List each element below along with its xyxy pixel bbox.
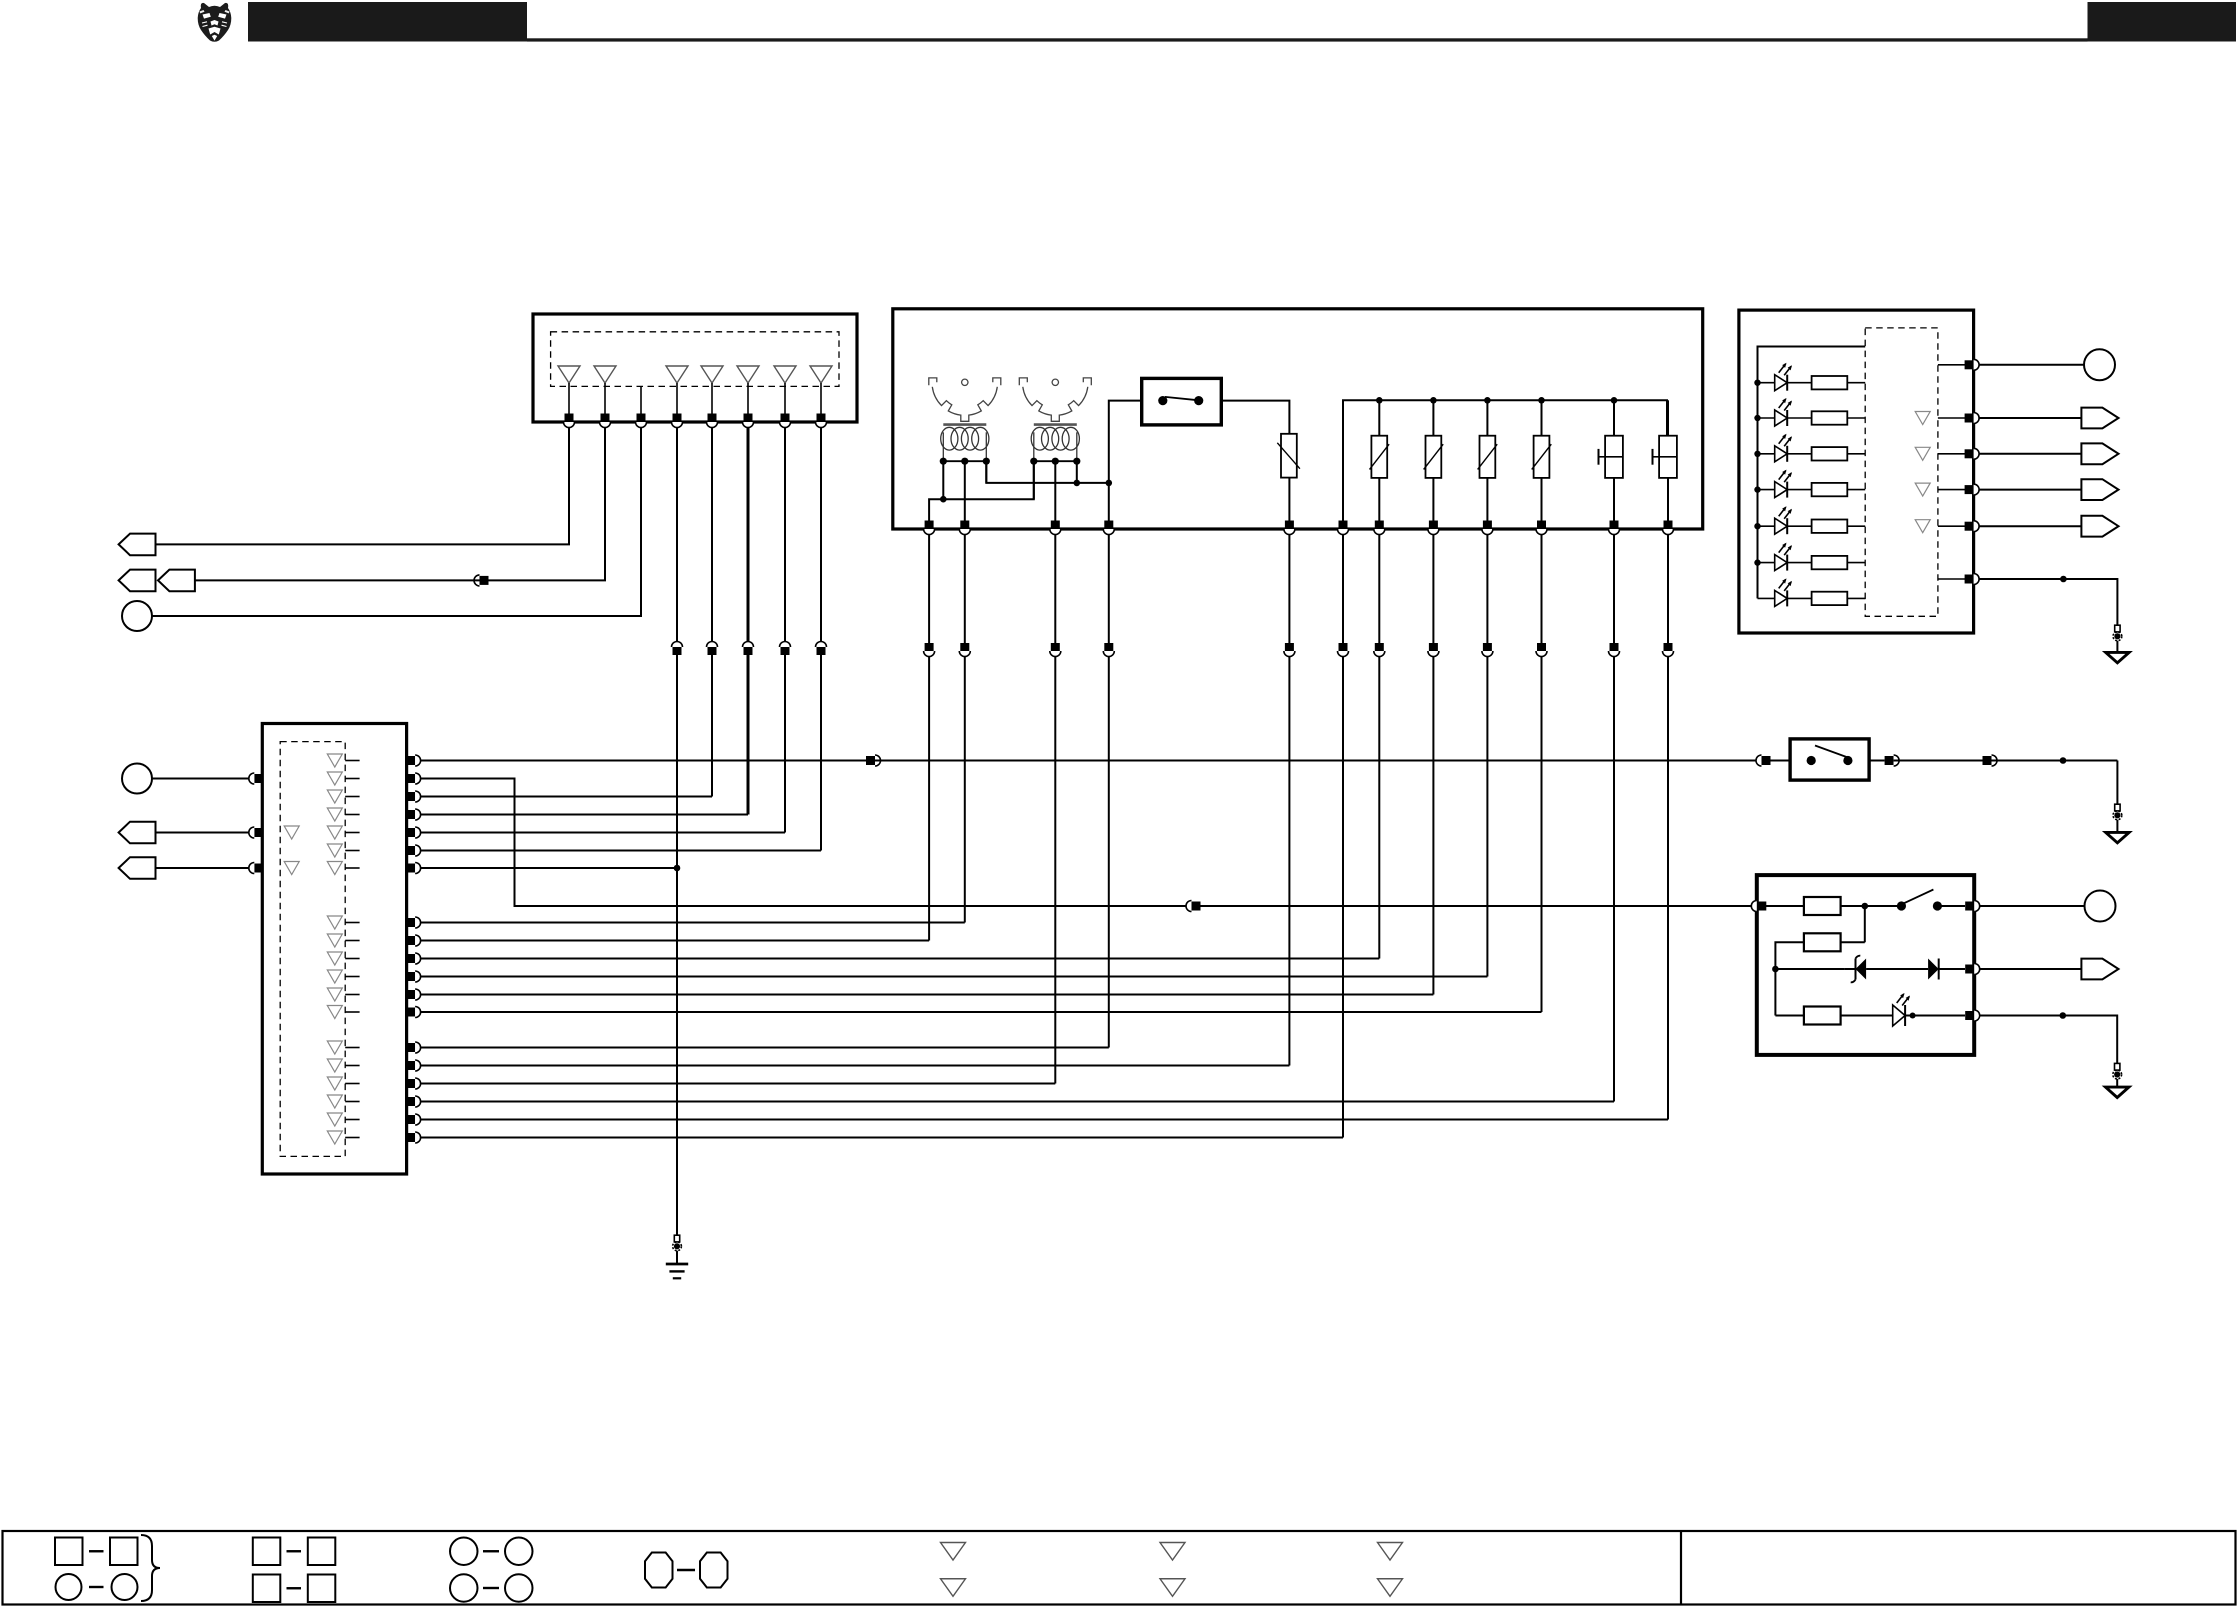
wire LED D4 to resistor	[1787, 489, 1811, 491]
legend dash	[287, 1587, 302, 1589]
splice symbol X2 (circle) on U1 pin 3 wire	[122, 601, 152, 631]
Jaguar logo	[198, 3, 232, 42]
pin 7 lead inside U1	[784, 383, 786, 414]
harness flag on U4 output	[2081, 443, 2118, 464]
wire ring terminal to ground symbol	[2116, 641, 2118, 653]
harness flag on U5 output	[2081, 959, 2118, 980]
wire logic block to pin 4 of U4	[1938, 489, 1965, 491]
earth ground G1 bar 2	[669, 1270, 684, 1272]
node supply bus junction	[1611, 397, 1618, 404]
in-line connector (module side)	[1050, 643, 1061, 657]
triangle marker at U3 row 3	[327, 790, 342, 803]
wire from U2 pin 9 down to connector	[1486, 535, 1488, 643]
pin 2 lead inside U1	[604, 383, 606, 414]
pin C of U3 (left)	[249, 863, 264, 874]
wire VRS1 right terminal down	[985, 461, 987, 483]
wire U3 row 16 to vertical drop	[421, 1083, 1055, 1085]
node LED bus junction	[1754, 415, 1760, 421]
pin row 5 of U3 (right)	[406, 827, 421, 838]
wire bus to LED D1	[1758, 382, 1775, 384]
legend connector circle 1b	[112, 1574, 138, 1600]
wire flag to U3 pin B	[156, 832, 250, 834]
legend dash	[287, 1550, 302, 1552]
heater resistor RH2 bottom lead	[1432, 478, 1434, 521]
wire pin 1 to resistor R10	[1761, 905, 1804, 907]
legend dash	[677, 1569, 695, 1571]
thermistor RT1 (coolant temperature sensor)	[1281, 434, 1297, 478]
wire connector to control unit	[1201, 905, 1752, 907]
pin 3 of U1	[636, 414, 647, 428]
legend triangle marker lower	[941, 1579, 966, 1597]
pin B of U3 (left)	[249, 827, 264, 838]
header rule	[527, 38, 2088, 41]
pin row 14 of U3 (right)	[406, 1042, 421, 1053]
wire from connector down to ECM row	[1541, 657, 1543, 1013]
harness flag to U3 pin B	[119, 822, 156, 844]
wire U3 row 4 to vertical drop	[421, 814, 748, 816]
wire splice X1 to U3 pin A	[152, 778, 249, 780]
in-line connector (harness side)	[672, 642, 683, 656]
row 17 stub inside U3	[345, 1101, 359, 1103]
resistor R10	[1804, 897, 1841, 915]
wire VRS1 centre tap down to pin 2	[964, 461, 966, 520]
in-line connector (module side)	[1663, 643, 1674, 657]
second in-line connector after switch S2	[1983, 755, 1998, 766]
in-line connector (module side)	[1374, 643, 1385, 657]
node LED bus junction	[1754, 486, 1760, 492]
legend triangle marker upper	[941, 1543, 966, 1561]
wire U4 pin to harness flag	[1979, 525, 2081, 527]
wire U1 pin 1 to harness flag	[156, 428, 570, 545]
in-line connector (harness side)	[707, 642, 718, 656]
wire from U2 pin 12 down to connector	[1667, 535, 1669, 643]
pin row 19 of U3 (right)	[406, 1132, 421, 1143]
pin 9 of U2	[1482, 521, 1493, 535]
resistor R2	[1812, 411, 1848, 424]
legend dash	[89, 1586, 104, 1588]
in-line connector (module side)	[1609, 643, 1620, 657]
pin 6 of U4	[1965, 574, 1980, 585]
pin 1 of U4	[1965, 359, 1980, 370]
pin 5 of U2	[1284, 521, 1295, 535]
wire logic block to pin 1 of U4	[1938, 364, 1965, 366]
wire from U2 pin 8 down to connector	[1432, 535, 1434, 643]
LED D7	[1775, 578, 1792, 606]
in-line connector (module side)	[1338, 643, 1349, 657]
wire LED D6 to resistor	[1787, 562, 1811, 564]
wire from U2 pin 4 down to connector	[1108, 535, 1110, 643]
wire from connector down to ECM row	[1054, 657, 1056, 1084]
wire from connector down to ECM row	[1342, 657, 1344, 1138]
wire joining VRS1/VRS2 left terminals	[929, 461, 1034, 520]
row 2 stub inside U3	[345, 778, 359, 780]
wire LED D5 to resistor	[1787, 525, 1811, 527]
pin 4 of U1	[672, 414, 683, 428]
row 1 stub inside U3	[345, 760, 359, 762]
harness flag on U4 output	[2081, 408, 2118, 429]
knock sensor KS2 top lead	[1667, 400, 1669, 435]
header page-number bar right	[2088, 2, 2237, 42]
pin row 13 of U3 (right)	[406, 1007, 421, 1018]
row 18 stub inside U3	[345, 1119, 359, 1121]
wire resistor R5 to logic block	[1847, 525, 1865, 527]
wire bus to zener diode VR1	[1775, 968, 1845, 970]
in-line connector (module side)	[959, 643, 970, 657]
module U5 box (control unit)	[1757, 875, 1974, 1055]
pin 7 of U1	[780, 414, 791, 428]
row 8 stub inside U3	[345, 922, 359, 924]
triangle marker at U3 row 13	[327, 1006, 342, 1019]
row 16 stub inside U3	[345, 1083, 359, 1085]
wire U3 row 15 to vertical drop	[421, 1065, 1289, 1067]
legend connector square 2b	[308, 1538, 336, 1566]
triangle marker at U3 row 19	[327, 1131, 342, 1144]
ring terminal at body ground G2	[2113, 804, 2122, 820]
wire bus to zener bar segment	[1845, 968, 1856, 970]
triangle marker at U3 row 16	[327, 1077, 342, 1090]
wire from connector down to ECM row	[676, 655, 678, 868]
ring terminal of ground spur	[673, 1235, 682, 1251]
node LED bus junction	[1754, 559, 1760, 565]
switch S3 blade	[1902, 890, 1933, 905]
resistor R11	[1804, 933, 1841, 951]
legend connector square 2a	[253, 1538, 280, 1566]
triangle marker at U3 row 17	[327, 1095, 342, 1108]
legend dash	[89, 1550, 104, 1552]
wire LED D1 to resistor	[1787, 382, 1811, 384]
wire from connector down to ECM row	[747, 655, 750, 815]
knock sensor KS2	[1653, 436, 1677, 478]
wire U3 row 10 to vertical drop	[421, 958, 1379, 960]
triangle marker above pin 7 of U1	[774, 366, 796, 383]
node after LED D9	[1910, 1013, 1916, 1019]
wire ground spur down	[676, 868, 678, 1237]
legend connector circle 3a	[450, 1538, 478, 1566]
wire LED D7 to resistor	[1787, 597, 1811, 599]
wire LED D9 to pin 4 of U5	[1905, 1015, 1965, 1017]
in-line connector (module side)	[924, 643, 935, 657]
wire switch S1 right lead to thermistor	[1221, 401, 1289, 434]
switch S3 left contact	[1897, 901, 1906, 910]
harness flag on U4 output	[2081, 516, 2118, 537]
wire from connector down to ECM row	[1486, 657, 1488, 977]
harness flag on U1 pin 1 wire	[119, 534, 156, 556]
pin 6 of U1	[743, 414, 754, 428]
pin row 1 of U3 (right)	[406, 755, 421, 766]
chassis ground G4	[2106, 1087, 2129, 1097]
pin 2 of U4	[1965, 413, 1980, 424]
wire switch S3 to pin 2 of U5	[1937, 905, 1965, 907]
in-line connector (harness side)	[780, 642, 791, 656]
knock sensor KS1	[1599, 436, 1623, 478]
legend dash	[483, 1587, 499, 1589]
resistor R12	[1804, 1007, 1841, 1025]
triangle marker at U3 row 18	[327, 1113, 342, 1126]
pin row 17 of U3 (right)	[406, 1096, 421, 1107]
pin 1 of U2	[924, 521, 935, 535]
switch S2 right contact	[1843, 756, 1852, 765]
heater resistor RH3 top lead	[1486, 400, 1488, 435]
switch S1 left contact	[1158, 396, 1167, 405]
wire VRS2 right terminal down	[1076, 461, 1078, 483]
wire from connector down to ECM row	[1432, 657, 1434, 995]
wire switch S2 to in-line connector	[1869, 760, 1885, 762]
legend triangle marker lower	[1378, 1579, 1403, 1597]
in-line connector on control unit feed	[1186, 901, 1201, 912]
row 5 stub inside U3	[345, 832, 359, 834]
triangle marker above pin 4 of U1	[666, 366, 688, 383]
pin 2 of U1	[600, 414, 611, 428]
node VRS2 right terminal junction	[1074, 480, 1081, 487]
node LED bus junction	[1754, 523, 1760, 529]
wire from U1 pin 7 down to connector	[784, 428, 786, 642]
row 4 stub inside U3	[345, 814, 359, 816]
ring terminal at ground G4	[2113, 1063, 2122, 1079]
heater resistor RH2 top lead	[1432, 400, 1434, 435]
wire from U2 pin 6 down to connector	[1342, 535, 1344, 643]
pin 5 of U1	[707, 414, 718, 428]
triangle marker at U3 row 11	[327, 970, 342, 983]
legend connector circle 3d	[505, 1574, 533, 1602]
wire bus to LED D7	[1758, 597, 1775, 599]
LED D5	[1775, 506, 1792, 534]
wire U3 row 14 to vertical drop	[421, 1047, 1109, 1049]
node supply bus junction	[1484, 397, 1491, 404]
wire U3 row 11 to vertical drop	[421, 976, 1487, 978]
in-line connector on row 1 wire	[866, 755, 881, 766]
legend triangle marker lower	[1160, 1579, 1185, 1597]
node LED bus junction	[1754, 451, 1760, 457]
pin row 7 of U3 (right)	[406, 863, 421, 874]
thermistor RT1 diagonal	[1277, 443, 1300, 469]
wire resistor R11 left lead to internal bus	[1775, 942, 1804, 1015]
chassis ground G3	[2106, 652, 2129, 662]
wire U3 row 12 to vertical drop	[421, 994, 1433, 996]
wire U4 pin to harness flag	[1979, 489, 2081, 491]
legend connector square 2c	[253, 1575, 280, 1603]
module U4 internal dashed boundary	[1865, 328, 1938, 616]
triangle marker at U3 left pin B	[284, 826, 299, 839]
module U2 box (engine sensor module)	[893, 309, 1703, 529]
wire VRS2 centre tap down to pin 3	[1054, 461, 1056, 520]
triangle marker inside U4	[1915, 447, 1930, 460]
pin 3 lead inside U1	[640, 386, 642, 414]
pin 1 of U5 (left)	[1751, 901, 1766, 912]
pin 12 of U2	[1663, 521, 1674, 535]
node supply bus junction	[1538, 397, 1545, 404]
wire joining VRS1/VRS2 right terminals to switch leg	[986, 461, 1109, 483]
legend octagon a	[645, 1553, 673, 1588]
wire connector to harness flags	[195, 579, 480, 581]
node R11 tap	[1862, 903, 1869, 910]
chassis ground G2	[2106, 832, 2129, 842]
wire from U2 pin 3 down to connector	[1054, 535, 1056, 643]
row 14 stub inside U3	[345, 1047, 359, 1049]
row 15 stub inside U3	[345, 1065, 359, 1067]
triangle marker above pin 1 of U1	[558, 366, 580, 383]
heater resistor RH3 (variable)	[1478, 436, 1498, 478]
knock sensor KS1 bottom lead	[1613, 478, 1615, 521]
wire U3 row 1 to in-line connector	[421, 760, 866, 762]
wire from U1 pin 5 down to connector	[711, 428, 713, 642]
pin row 11 of U3 (right)	[406, 971, 421, 982]
pin row 9 of U3 (right)	[406, 935, 421, 946]
splice symbol X4 (circle) on U5 output	[2085, 891, 2116, 922]
wire pin 3 to harness flag	[1980, 968, 2082, 970]
pin 3 of U5 (right row 2)	[1965, 964, 1980, 975]
triangle marker at U3 row 2	[327, 772, 342, 785]
variable reluctance sensor VRS2 (toothed wheel and pickup coil)	[1019, 378, 1091, 465]
wire U4 pin 1 to splice circle	[1979, 364, 2084, 366]
pin row 4 of U3 (right)	[406, 809, 421, 820]
wire resistor R10 to switch S3	[1841, 905, 1902, 907]
wire U4 pin to harness flag	[1979, 453, 2081, 455]
pin 4 of U2	[1103, 521, 1114, 535]
wire from U1 pin 8 down to connector	[820, 428, 822, 642]
triangle marker at U3 row 4	[327, 808, 342, 821]
wire U3 row 3 to vertical drop	[421, 796, 712, 798]
wire bus to LED D2	[1758, 417, 1775, 419]
LED D6	[1775, 543, 1792, 571]
wire resistor R11 right lead	[1841, 941, 1865, 943]
wire ground drop down	[2116, 761, 2118, 805]
wire pin 2 to splice circle	[1980, 905, 2085, 907]
legend connector circle 3b	[505, 1538, 533, 1566]
wire from U2 pin 1 down to connector	[928, 535, 930, 643]
resistor R1	[1812, 376, 1848, 389]
knock sensor KS1 top lead	[1613, 400, 1615, 435]
wire bus to LED D6	[1758, 562, 1775, 564]
wire from connector down to ECM row	[928, 657, 930, 941]
in-line connector (harness side)	[816, 642, 827, 656]
resistor R4	[1812, 483, 1848, 496]
LED D1	[1775, 363, 1792, 391]
legend connector square 2d	[308, 1575, 336, 1603]
switch S1 blade	[1165, 397, 1199, 400]
triangle marker at U3 row 5	[327, 826, 342, 839]
heater resistor RH1 top lead	[1378, 400, 1380, 435]
triangle marker above pin 2 of U1	[594, 366, 616, 383]
pin row 10 of U3 (right)	[406, 953, 421, 964]
pin 6 lead inside U1	[747, 383, 749, 414]
pin 8 lead inside U1	[820, 383, 822, 414]
row 9 stub inside U3	[345, 940, 359, 942]
in-line connector (module side)	[1536, 643, 1547, 657]
pin 3 of U2	[1050, 521, 1061, 535]
wire U3 row 18 to vertical drop	[421, 1119, 1668, 1121]
wire tap down to resistor R11	[1864, 906, 1866, 942]
wire from U2 pin 2 down to connector	[964, 535, 966, 643]
wire to second in-line connector	[1894, 760, 1983, 762]
wire connector to switch S2 box	[1771, 760, 1791, 762]
wire bus to resistor R12	[1775, 1015, 1804, 1017]
knock sensor KS2 bottom lead	[1667, 478, 1669, 521]
splice node on U5 ground lead	[2060, 1012, 2067, 1019]
wire from connector down to ECM row	[964, 657, 966, 923]
triangle marker at U3 row 7	[327, 862, 342, 875]
module U4 box (warning lamp module)	[1739, 310, 1974, 633]
wire from U1 pin 6 down to connector	[747, 428, 750, 642]
wire switch S1 left lead	[1109, 401, 1142, 521]
wire bus to LED D4	[1758, 489, 1775, 491]
pin 8 of U1	[816, 414, 827, 428]
legend triangle marker upper	[1378, 1543, 1403, 1561]
module U3 box (engine control module)	[262, 724, 406, 1175]
row 19 stub inside U3	[345, 1137, 359, 1139]
resistor R6	[1812, 556, 1848, 569]
in-line connector on U1 pin 2 wire	[474, 575, 489, 586]
wire resistor R2 to logic block	[1847, 417, 1865, 419]
triangle marker at U3 row 12	[327, 988, 342, 1001]
header title bar left	[248, 2, 527, 42]
node ground spur junction on ECM row 7	[674, 865, 681, 872]
wire U4 pin to harness flag	[1979, 417, 2081, 419]
wire from connector down to ECM row	[784, 655, 786, 833]
pin 5 lead inside U1	[711, 383, 713, 414]
triangle marker above pin 8 of U1	[810, 366, 832, 383]
wire from U1 pin 4 down to connector	[676, 428, 678, 642]
module U3 internal dashed boundary	[280, 742, 345, 1157]
node supply bus junction	[1430, 397, 1437, 404]
harness flag to U3 pin C	[119, 857, 156, 879]
LED D4	[1775, 470, 1792, 498]
wire U1 pin 2 to connector	[489, 428, 606, 581]
legend connector square 1a	[55, 1538, 83, 1566]
pin row 6 of U3 (right)	[406, 845, 421, 856]
pin 7 of U2	[1374, 521, 1385, 535]
wire ring terminal to earth point	[676, 1251, 678, 1264]
wire logic block to pin 5 of U4	[1938, 525, 1965, 527]
pin row 3 of U3 (right)	[406, 791, 421, 802]
wire zener VR1 to diode D8	[1866, 968, 1928, 970]
LED D3	[1775, 434, 1792, 462]
pin row 12 of U3 (right)	[406, 989, 421, 1000]
wire from connector down to ECM row	[1108, 657, 1110, 1048]
pin 5 of U4	[1965, 521, 1980, 532]
wire from U2 pin 10 down to connector	[1541, 535, 1543, 643]
wire from connector down to ECM row	[1613, 657, 1615, 1102]
triangle marker above pin 5 of U1	[701, 366, 723, 383]
wire U3 row 9 to vertical drop	[421, 940, 929, 942]
splice symbol X1 (circle) on U3 pin A	[122, 764, 152, 794]
triangle marker inside U4	[1915, 483, 1930, 496]
in-line connector (module side)	[1428, 643, 1439, 657]
module U1 box (top-left connector module)	[533, 314, 857, 422]
wire LED D3 to resistor	[1787, 453, 1811, 455]
triangle marker at U3 row 15	[327, 1059, 342, 1072]
triangle marker at U3 row 14	[327, 1041, 342, 1054]
wire from U2 pin 7 down to connector	[1378, 535, 1380, 643]
row 13 stub inside U3	[345, 1011, 359, 1013]
legend triangle marker upper	[1160, 1543, 1185, 1561]
triangle marker at U3 row 1	[327, 754, 342, 767]
legend brace	[141, 1535, 160, 1601]
row 11 stub inside U3	[345, 976, 359, 978]
LED supply bus inside U4	[1758, 347, 1866, 599]
wire from connector down to ECM row	[711, 655, 713, 797]
heater resistor RH4 bottom lead	[1541, 478, 1543, 521]
in-line connector (harness side)	[743, 642, 754, 656]
wire thermistor RT1 to pin 5	[1288, 478, 1290, 521]
in-line connector (module side)	[1103, 643, 1114, 657]
wire diode D8 to pin 3 of U5	[1939, 968, 1965, 970]
row 7 stub inside U3	[345, 867, 359, 869]
wire U3 row 7 to vertical drop	[421, 867, 677, 869]
splice node on U4 ground lead	[2060, 576, 2067, 583]
pin row 2 of U3 (right)	[406, 773, 421, 784]
heater resistor RH2 (variable)	[1424, 436, 1444, 478]
node switch leg junction	[1106, 480, 1113, 487]
